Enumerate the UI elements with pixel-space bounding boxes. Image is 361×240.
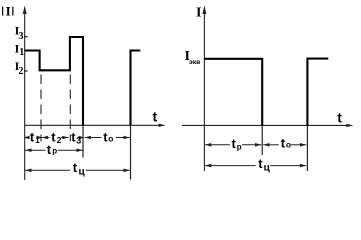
svg-text:экв: экв [189,59,200,66]
svg-text:ц: ц [264,163,271,174]
svg-text:I: I [6,3,11,18]
x-axis right [182,124,347,126]
svg-text:р: р [237,142,242,151]
tick I3 level [24,36,28,38]
tc right-plot left arrow [205,164,211,168]
t3 right arrow [79,136,85,139]
dimension row 1 left: t1 t2 t3 to y=137.3 [24,136,130,140]
y-axis left [24,10,26,180]
dashed line t2/t3 boundary [69,75,71,142]
svg-text:t: t [153,109,158,125]
tc right arrow [124,169,130,173]
tp right-plot right arrow [255,143,261,147]
t2 right arrow [62,136,68,140]
svg-text:t: t [51,130,56,145]
svg-text:t: t [47,142,52,157]
dimension row 3 left: tc y=170 [25,169,130,173]
to right-plot left arrow [263,143,269,147]
svg-text:t: t [30,130,35,145]
svg-text:I: I [196,6,201,21]
svg-text:2: 2 [57,135,62,145]
pulse right edge extension below axis [261,125,263,155]
svg-text:1: 1 [19,47,24,58]
to right-plot right arrow [300,143,306,147]
tc right-plot right arrow [300,164,306,168]
pulse right edge extension below axis [82,125,84,157]
tp right-plot left arrow [205,143,211,147]
y-axis arrowhead left [23,6,27,15]
svg-text:о: о [108,134,113,144]
t1 left arrow [24,136,30,139]
svg-text:3: 3 [76,135,81,145]
y-axis right [203,10,205,171]
second pulse (next cycle at I1) [131,51,141,126]
tp left arrow [25,148,31,152]
dimension row 2 left: tp y=150.2 [25,148,83,152]
dimension row 1 right: tp to y=144.6 [205,143,306,147]
tp right arrow [77,148,83,152]
svg-text:р: р [52,147,57,156]
to left arrow [85,136,91,140]
x-axis left [25,124,160,126]
x-axis arrowhead right [346,124,353,127]
svg-text:t: t [73,160,78,175]
to right arrow [124,136,130,140]
t1 right arrow [37,136,43,139]
waveform left: I1,I2,I3 steps [25,37,83,126]
svg-text:t: t [258,156,263,171]
waveform right: Iekv pulse [204,59,262,126]
svg-text:2: 2 [18,66,23,77]
dashed line t1/t2 boundary [40,75,42,142]
svg-text:t: t [337,110,342,126]
y-axis arrowhead right [202,6,206,15]
second pulse extension below axis [306,125,308,171]
second pulse right plot [307,59,328,126]
svg-text:ц: ц [79,167,86,178]
tick I2 level [24,70,28,72]
svg-text:о: о [286,140,291,150]
svg-text:1: 1 [35,136,40,145]
second pulse extension below axis [130,125,132,179]
svg-text:3: 3 [19,31,24,42]
t2 left arrow [42,136,48,140]
dimension row 2 right: tc y=165.2 [205,164,306,168]
x-axis arrowhead left [159,124,166,127]
tc left arrow [25,169,31,173]
